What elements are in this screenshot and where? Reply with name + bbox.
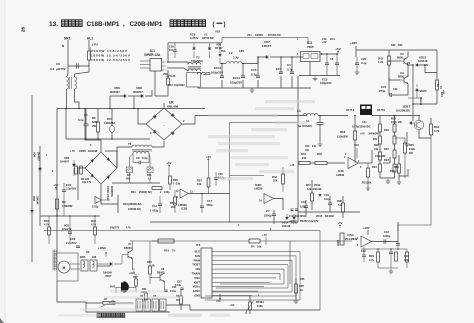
ground ladder bbox=[397, 180, 402, 184]
resistor R40b bbox=[393, 124, 396, 132]
svg-text:1N4148: 1N4148 bbox=[313, 188, 322, 191]
svg-text:IC2B: IC2B bbox=[181, 207, 187, 211]
wire snubber bottom bbox=[66, 138, 150, 140]
wire choke down R bbox=[75, 89, 80, 109]
svg-text:1N4148: 1N4148 bbox=[36, 196, 39, 205]
resistor R11v bbox=[147, 167, 153, 173]
wire MCU fanout bbox=[216, 251, 300, 253]
svg-text:1N4148: 1N4148 bbox=[325, 215, 334, 218]
wire mains L bbox=[67, 40, 69, 66]
svg-text:L1: L1 bbox=[297, 109, 301, 113]
wire r14 left bbox=[152, 240, 158, 242]
svg-text:13k: 13k bbox=[307, 187, 312, 191]
wire T2 sec top bbox=[203, 74, 210, 76]
svg-text:C11: C11 bbox=[362, 120, 367, 124]
svg-text:0.3: 0.3 bbox=[50, 67, 55, 71]
svg-text:HA1: HA1 bbox=[110, 285, 116, 289]
svg-text:EC6: EC6 bbox=[70, 237, 76, 241]
diode VD14 bbox=[286, 217, 289, 219]
wire buzzer bbox=[116, 288, 121, 294]
svg-text:R14: R14 bbox=[305, 145, 310, 148]
svg-text:18V: 18V bbox=[239, 49, 244, 53]
svg-text:1.2k: 1.2k bbox=[378, 60, 384, 64]
capacitor C33 1000p bbox=[396, 244, 400, 246]
svg-text:DYU5/0.7W: DYU5/0.7W bbox=[268, 34, 281, 37]
svg-text:+25: +25 bbox=[290, 164, 295, 167]
svg-text:0.01μ: 0.01μ bbox=[170, 290, 177, 293]
svg-text:+5V: +5V bbox=[338, 221, 343, 225]
svg-text:+0VA: +0VA bbox=[129, 272, 135, 275]
svg-text:C7: C7 bbox=[266, 209, 270, 213]
svg-text:7805: 7805 bbox=[307, 45, 314, 49]
wire HV rail bbox=[195, 115, 307, 117]
ghost bleedthrough bbox=[265, 100, 315, 103]
wire bus y241 bbox=[130, 240, 249, 242]
svg-text:1RY/0.5W: 1RY/0.5W bbox=[202, 36, 214, 40]
svg-text:+7V: +7V bbox=[262, 233, 267, 237]
svg-text:C18: C18 bbox=[324, 193, 329, 197]
svg-text:R30: R30 bbox=[173, 178, 178, 182]
svg-text:10n: 10n bbox=[169, 49, 174, 52]
svg-text:C17: C17 bbox=[207, 199, 213, 203]
svg-text:+7V: +7V bbox=[70, 149, 75, 153]
svg-text:C15: C15 bbox=[251, 68, 257, 72]
wire lower HV bus bbox=[354, 155, 356, 163]
svg-text:2N LM339: 2N LM339 bbox=[345, 237, 358, 241]
svg-text:0.1μ: 0.1μ bbox=[361, 61, 367, 65]
svg-text:0.03μ: 0.03μ bbox=[175, 284, 182, 287]
svg-text:51k: 51k bbox=[338, 203, 343, 207]
svg-text:2.2μ/16V: 2.2μ/16V bbox=[66, 188, 76, 191]
svg-text:R24: R24 bbox=[384, 158, 389, 162]
svg-text:100μ/25V: 100μ/25V bbox=[211, 71, 223, 75]
svg-text:R36: R36 bbox=[337, 199, 342, 203]
wire T2 primary bot bbox=[167, 68, 188, 71]
wire IC1 gnd drop bbox=[154, 71, 156, 96]
svg-text:,: , bbox=[123, 21, 125, 28]
op-amp IC2C LM339 bbox=[348, 158, 358, 169]
svg-text:1N4148: 1N4148 bbox=[419, 97, 422, 106]
svg-text:VIPER 12A: VIPER 12A bbox=[144, 53, 161, 57]
junction dot bbox=[78, 108, 80, 110]
svg-text:C4: C4 bbox=[287, 63, 291, 67]
svg-text:RT301: RT301 bbox=[256, 300, 264, 304]
wire left bus2 bbox=[63, 200, 65, 216]
svg-text:0.1μ: 0.1μ bbox=[78, 118, 84, 122]
svg-text:R4: R4 bbox=[251, 245, 255, 249]
svg-text:CIN: CIN bbox=[196, 267, 201, 271]
wire T1 sec bbox=[130, 154, 134, 168]
svg-text:R8: R8 bbox=[92, 116, 96, 120]
wire choke down L bbox=[66, 89, 68, 109]
wire mcu bottom bbox=[190, 309, 320, 311]
svg-text:+5V: +5V bbox=[206, 155, 211, 159]
svg-text:0.3μ: 0.3μ bbox=[142, 156, 148, 160]
svg-text:EC4: EC4 bbox=[330, 38, 335, 41]
svg-text:240k/2W: 240k/2W bbox=[369, 132, 380, 136]
svg-text:18V: 18V bbox=[424, 64, 429, 67]
wire feedback net bbox=[230, 122, 299, 124]
wire bottom frame bbox=[86, 302, 170, 312]
transistor V8 8050 bbox=[156, 273, 165, 282]
svg-text:2N4007: 2N4007 bbox=[37, 152, 40, 161]
svg-text:T1: T1 bbox=[128, 142, 132, 146]
svg-text:24k: 24k bbox=[374, 147, 379, 151]
svg-text:10V: 10V bbox=[354, 143, 359, 147]
svg-text:IC5: IC5 bbox=[196, 243, 201, 247]
svg-text:TRANS3: TRANS3 bbox=[191, 59, 203, 63]
svg-text:GA25N120: GA25N120 bbox=[396, 109, 410, 113]
svg-text:IGBT: IGBT bbox=[194, 280, 201, 284]
wire igbt emitter bbox=[419, 130, 431, 138]
wire ic2a out bbox=[372, 241, 399, 243]
svg-text:μ/275V: μ/275V bbox=[56, 67, 66, 71]
svg-text:3.3μ: 3.3μ bbox=[233, 56, 239, 60]
svg-text:500: 500 bbox=[126, 177, 131, 181]
svg-text:(: ( bbox=[213, 22, 215, 28]
svg-text:R24: R24 bbox=[372, 165, 377, 169]
svg-text:2W: 2W bbox=[398, 121, 402, 124]
svg-text:130k/2W: 130k/2W bbox=[62, 204, 73, 208]
svg-text:1N/50V: 1N/50V bbox=[255, 34, 263, 37]
svg-text:C-R+5V±10%/C: C-R+5V±10%/C bbox=[289, 215, 307, 218]
fuse FU bbox=[88, 51, 91, 60]
svg-text:+5V: +5V bbox=[230, 304, 235, 307]
ground cluster bbox=[389, 269, 394, 273]
svg-text:4.7k: 4.7k bbox=[369, 259, 374, 262]
svg-text:0VA: 0VA bbox=[221, 50, 226, 53]
svg-text:4.7k: 4.7k bbox=[126, 227, 131, 230]
svg-text:1n/50V: 1n/50V bbox=[190, 36, 199, 40]
ic IC1 pins bbox=[140, 61, 166, 70]
power +5V left bbox=[55, 187, 57, 191]
svg-text:VD20: VD20 bbox=[420, 89, 427, 93]
svg-text:R24: R24 bbox=[394, 165, 399, 169]
bridge VB bbox=[85, 152, 117, 184]
svg-text:10k 4.7k: 10k 4.7k bbox=[82, 181, 92, 184]
label sensor text bbox=[97, 313, 101, 317]
wire snubber row bbox=[168, 42, 222, 44]
svg-text:2200p: 2200p bbox=[264, 214, 272, 218]
svg-text:RP: RP bbox=[127, 173, 131, 177]
diode VDb bbox=[208, 48, 211, 50]
svg-text:1600W 12.5A/250V: 1600W 12.5A/250V bbox=[91, 58, 131, 62]
svg-text:X2: X2 bbox=[86, 250, 90, 254]
svg-text:V3: V3 bbox=[400, 52, 404, 56]
wire left frame x57 bbox=[56, 109, 58, 254]
svg-text:OUT1: OUT1 bbox=[346, 108, 354, 112]
wire to 7805 bbox=[280, 56, 303, 58]
wire T2 primary top bbox=[167, 62, 188, 65]
svg-text:LM339: LM339 bbox=[336, 173, 345, 177]
wire ic2b out bbox=[189, 193, 230, 195]
svg-text:1N4148: 1N4148 bbox=[418, 59, 428, 63]
wire MCU nest bbox=[205, 252, 300, 301]
svg-text:BUZ: BUZ bbox=[195, 250, 201, 254]
wire ic2c out bbox=[359, 162, 373, 164]
svg-text:R44: R44 bbox=[91, 219, 96, 223]
wire bridge bottom bbox=[152, 141, 164, 147]
svg-text:1800W 12.5A/250V: 1800W 12.5A/250V bbox=[91, 54, 131, 58]
wire bus y230 bbox=[44, 230, 320, 232]
svg-text:VD15: VD15 bbox=[316, 215, 323, 218]
svg-text:V4: V4 bbox=[400, 71, 404, 75]
svg-text:R33: R33 bbox=[317, 152, 322, 156]
svg-text:VD8: VD8 bbox=[32, 196, 35, 201]
svg-text:120k/2W: 120k/2W bbox=[337, 135, 348, 139]
svg-text:2000W 15A/250V: 2000W 15A/250V bbox=[91, 49, 128, 53]
svg-text:IC2C: IC2C bbox=[338, 169, 344, 173]
svg-text:9C8: 9C8 bbox=[64, 224, 69, 228]
capacitor C9 bbox=[77, 64, 79, 69]
svg-text:5μ-400VDC: 5μ-400VDC bbox=[298, 124, 312, 128]
svg-text:LM339: LM339 bbox=[178, 203, 187, 207]
svg-text:+R20?: +R20? bbox=[289, 220, 297, 223]
wire ic2d out bbox=[274, 199, 284, 211]
transistor V5 igbt bbox=[414, 120, 424, 130]
wire c33 node bbox=[397, 222, 399, 242]
wire ladder bottoms bbox=[380, 172, 395, 178]
svg-text:1-022μ: 1-022μ bbox=[150, 209, 159, 213]
svg-text:GND: GND bbox=[194, 294, 200, 298]
svg-text:97μ/27V: 97μ/27V bbox=[110, 227, 119, 230]
svg-text:VD4: VD4 bbox=[33, 152, 37, 158]
svg-text:VD27: VD27 bbox=[105, 275, 112, 278]
svg-text:R37: R37 bbox=[133, 276, 138, 279]
svg-text:C16: C16 bbox=[301, 200, 306, 204]
svg-text:R19: R19 bbox=[391, 117, 396, 121]
svg-text:2.2μ/50V: 2.2μ/50V bbox=[66, 241, 77, 245]
svg-text:2W: 2W bbox=[92, 124, 96, 128]
svg-text:): ) bbox=[224, 22, 226, 28]
svg-text:VD25: VD25 bbox=[79, 149, 86, 153]
wire sec gnd bus bbox=[198, 87, 311, 88]
choke L-T common mode bbox=[67, 77, 69, 89]
svg-text:OUT2: OUT2 bbox=[377, 108, 385, 112]
wire 7805 gnd bbox=[309, 62, 311, 76]
svg-text:FR107: FR107 bbox=[262, 44, 271, 48]
svg-text:C9: C9 bbox=[56, 62, 60, 66]
wire motor leads bbox=[70, 263, 80, 265]
svg-text:VD10~VD13: VD10~VD13 bbox=[106, 186, 110, 201]
resistor R2 bridge bbox=[75, 166, 78, 174]
svg-text:FR207 2.2μ/17V: FR207 2.2μ/17V bbox=[300, 220, 319, 223]
svg-text:R47: R47 bbox=[384, 147, 389, 151]
wire vd6 tap bbox=[109, 96, 111, 109]
svg-text:1.2: 1.2 bbox=[148, 177, 152, 181]
wire vb right bbox=[105, 151, 117, 168]
wire driver out bbox=[408, 64, 413, 66]
wire T1 in bbox=[117, 147, 132, 168]
svg-text:7~10k: 7~10k bbox=[173, 183, 181, 186]
svg-text:B50: B50 bbox=[398, 44, 403, 47]
svg-text:C32: C32 bbox=[361, 250, 366, 253]
svg-text:24k: 24k bbox=[302, 156, 307, 160]
wire v7 base bbox=[122, 255, 124, 265]
wire bridge left bbox=[138, 109, 146, 125]
wire vd8 tap bbox=[133, 96, 135, 109]
svg-text:2N4007: 2N4007 bbox=[110, 90, 120, 94]
svg-text:1N4007K: 1N4007K bbox=[110, 186, 114, 197]
power +5V c bbox=[208, 159, 210, 163]
junction dot bbox=[66, 108, 68, 110]
svg-text:2N4007: 2N4007 bbox=[133, 90, 143, 94]
svg-text:R34: R34 bbox=[301, 152, 306, 156]
svg-text:4.7k: 4.7k bbox=[434, 129, 440, 133]
power +5V ic2a bbox=[339, 225, 341, 229]
svg-text:R27: R27 bbox=[197, 179, 202, 183]
svg-text:TMAIN: TMAIN bbox=[192, 272, 200, 276]
svg-text:8550: 8550 bbox=[398, 75, 404, 79]
wire x2 out bbox=[97, 265, 110, 267]
svg-text:240k: 240k bbox=[409, 147, 415, 151]
svg-text:C8: C8 bbox=[136, 156, 140, 160]
svg-text:V8: V8 bbox=[161, 267, 165, 271]
wire across mains bbox=[68, 65, 89, 67]
wire mains N bbox=[88, 40, 90, 51]
svg-text:10k: 10k bbox=[176, 299, 181, 302]
svg-text:D8050: D8050 bbox=[124, 246, 132, 250]
svg-text:1N4148: 1N4148 bbox=[282, 225, 291, 228]
svg-text:+5V: +5V bbox=[166, 161, 171, 165]
power +5V mid bbox=[168, 165, 170, 169]
svg-text:EC5: EC5 bbox=[322, 78, 328, 82]
wire 7805 out bbox=[320, 53, 338, 55]
wire top rail right bbox=[222, 37, 308, 39]
wire vb left bbox=[78, 168, 85, 200]
svg-text:0.03μ: 0.03μ bbox=[92, 206, 99, 209]
wire right long vertical bbox=[398, 135, 431, 231]
svg-text:C20B-IMP1: C20B-IMP1 bbox=[130, 21, 163, 28]
wire main lower bus bbox=[57, 108, 205, 110]
wire vb bottom bbox=[100, 184, 102, 196]
svg-text:R40: R40 bbox=[384, 128, 389, 132]
svg-text:Chip: Chip bbox=[324, 198, 330, 201]
wire diode row bbox=[110, 95, 124, 97]
svg-text:+5V: +5V bbox=[335, 47, 340, 51]
svg-text:FANC: FANC bbox=[193, 289, 200, 293]
svg-text:+5V: +5V bbox=[322, 41, 327, 44]
wire x5 right bbox=[166, 305, 190, 310]
svg-text:VD19: VD19 bbox=[314, 184, 321, 187]
svg-text:100k: 100k bbox=[257, 304, 263, 308]
svg-text:4.7k: 4.7k bbox=[91, 223, 97, 227]
svg-text:R18: R18 bbox=[340, 130, 346, 134]
svg-text:100μ/25V: 100μ/25V bbox=[230, 81, 242, 85]
svg-text:+5V: +5V bbox=[360, 132, 365, 136]
svg-text:X36: X36 bbox=[92, 256, 97, 259]
wire right bus bbox=[298, 211, 360, 213]
wire divider bbox=[101, 196, 118, 204]
svg-text:VS2: VS2 bbox=[215, 30, 220, 34]
power +5V bbox=[337, 51, 339, 55]
svg-text:+RY126: +RY126 bbox=[166, 74, 176, 78]
svg-text:270p: 270p bbox=[379, 89, 386, 93]
svg-text:1000p: 1000p bbox=[383, 234, 391, 238]
svg-text:R11: R11 bbox=[131, 190, 136, 194]
svg-text:24k: 24k bbox=[312, 145, 317, 148]
svg-text:1 FU: 1 FU bbox=[92, 43, 98, 47]
ground sec bbox=[250, 88, 255, 92]
diode VDa bbox=[193, 48, 196, 50]
svg-text:C19: C19 bbox=[322, 38, 327, 41]
svg-text:IC2D: IC2D bbox=[255, 183, 261, 187]
svg-text:VS1: VS1 bbox=[247, 34, 252, 37]
svg-text:+16V: +16V bbox=[363, 226, 370, 230]
svg-text:R11: R11 bbox=[147, 173, 152, 177]
svg-text:R43: R43 bbox=[272, 175, 277, 179]
svg-text:R25: R25 bbox=[300, 278, 305, 281]
op-amp small comparator bbox=[95, 197, 102, 204]
svg-text:R10: R10 bbox=[44, 219, 49, 223]
wire vert x298 bbox=[297, 76, 299, 222]
svg-text:TIGBT: TIGBT bbox=[192, 263, 200, 267]
potentiometer RP 500 bbox=[127, 167, 133, 173]
wire left mid bus bbox=[40, 215, 100, 217]
wire r22 join bbox=[383, 162, 390, 164]
svg-text:D8050: D8050 bbox=[157, 272, 165, 275]
svg-text:V7: V7 bbox=[128, 242, 132, 246]
wire v7 collector bbox=[132, 241, 134, 250]
svg-text:20k: 20k bbox=[367, 181, 372, 185]
wire out2 to igbt bbox=[372, 115, 420, 117]
wire igbt gate bbox=[412, 104, 414, 121]
svg-text:LM339: LM339 bbox=[254, 187, 263, 191]
svg-text:R17: R17 bbox=[306, 183, 311, 187]
svg-text:C20: C20 bbox=[361, 57, 367, 61]
wire cluster top bbox=[361, 248, 407, 250]
svg-text:8256: 8256 bbox=[80, 256, 86, 259]
svg-text:+18V: +18V bbox=[350, 41, 357, 45]
svg-text:C28: C28 bbox=[169, 45, 174, 49]
svg-text:10k: 10k bbox=[273, 179, 278, 183]
svg-text:R12(1800W-82): R12(1800W-82) bbox=[123, 202, 142, 206]
svg-text:1N4148: 1N4148 bbox=[88, 149, 98, 153]
svg-text:HL1: HL1 bbox=[87, 37, 93, 41]
wire bridge top out bbox=[182, 116, 195, 125]
svg-text:FAN: FAN bbox=[195, 254, 200, 258]
resistor R34b ladder bbox=[393, 164, 396, 172]
svg-text:KBL406: KBL406 bbox=[167, 105, 179, 109]
svg-text:1600W-82): 1600W-82) bbox=[128, 207, 141, 211]
svg-text:8050: 8050 bbox=[397, 56, 403, 60]
wire rp bottom bbox=[129, 173, 131, 184]
svg-text:~: ~ bbox=[163, 123, 165, 127]
svg-text:2W: 2W bbox=[409, 152, 413, 155]
svg-text:VD3: VD3 bbox=[64, 156, 70, 160]
svg-text:C13: C13 bbox=[384, 230, 389, 234]
svg-text:26: 26 bbox=[21, 27, 27, 33]
wire bottom left bus bbox=[57, 281, 86, 302]
svg-text:18V: 18V bbox=[373, 138, 378, 141]
wire 18V rail h bbox=[356, 49, 437, 51]
svg-text:C14: C14 bbox=[152, 204, 157, 208]
svg-text:C22: C22 bbox=[393, 88, 398, 91]
svg-text:10k: 10k bbox=[197, 182, 202, 186]
svg-text:R26: R26 bbox=[369, 254, 374, 258]
svg-text:M: M bbox=[63, 266, 66, 270]
resistor R37 bbox=[340, 233, 344, 245]
svg-text:C18B-IMP1: C18B-IMP1 bbox=[87, 21, 120, 28]
svg-text:+18VA: +18VA bbox=[98, 246, 106, 250]
wire T2 top feed bbox=[167, 43, 169, 62]
svg-text:+5V: +5V bbox=[54, 183, 59, 187]
svg-text:10k: 10k bbox=[305, 149, 310, 152]
svg-text:EC11: EC11 bbox=[233, 76, 240, 80]
svg-text:PWM: PWM bbox=[194, 258, 200, 262]
wire igbt collector bbox=[418, 116, 420, 121]
svg-text:OSC: OSC bbox=[194, 276, 200, 280]
